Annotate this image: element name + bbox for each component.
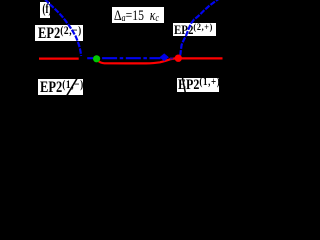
red line left segment <box>39 57 79 59</box>
arrow from EP2(1,+) label <box>182 74 187 99</box>
marker: red circle EP2(1,+) <box>175 55 182 62</box>
dark overlap dash left of red dot <box>170 58 173 60</box>
label box EP2(1,+) <box>177 78 219 93</box>
blue horizontal dash-dot branch between EPs <box>97 57 161 59</box>
marker: blue diamond <box>160 54 168 61</box>
marker: green circle EP2(2,-) <box>93 55 100 62</box>
red line right segment <box>181 57 223 59</box>
label box Delta_a = 15 kappa_c <box>112 7 164 23</box>
label box (f) <box>40 2 50 18</box>
label box EP2(1,-) <box>38 79 83 95</box>
blue branch ascending to top-right <box>180 0 219 56</box>
blue pre-marker dash <box>87 57 93 59</box>
label box EP2(2,-) <box>35 25 83 41</box>
arrow from EP2(1,-) label <box>63 74 80 103</box>
label box EP2(2,+) <box>173 23 216 36</box>
blue branch descending from top-left <box>45 0 81 56</box>
red dipped branch between EPs <box>98 58 176 63</box>
